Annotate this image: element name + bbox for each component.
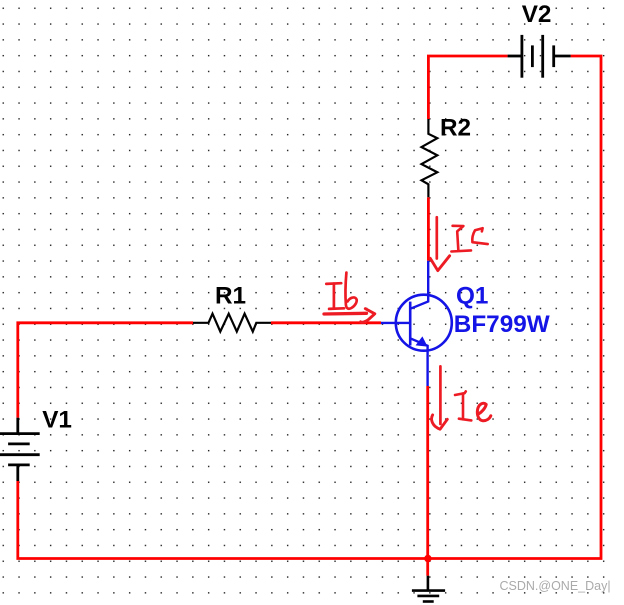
svg-text:BF799W: BF799W — [454, 311, 550, 338]
svg-text:V1: V1 — [42, 406, 72, 433]
svg-text:Q1: Q1 — [456, 282, 488, 309]
svg-text:R1: R1 — [215, 283, 246, 310]
svg-text:CSDN.@ONE_Day|: CSDN.@ONE_Day| — [500, 579, 611, 593]
svg-text:V2: V2 — [522, 1, 552, 28]
svg-text:R2: R2 — [440, 114, 471, 141]
